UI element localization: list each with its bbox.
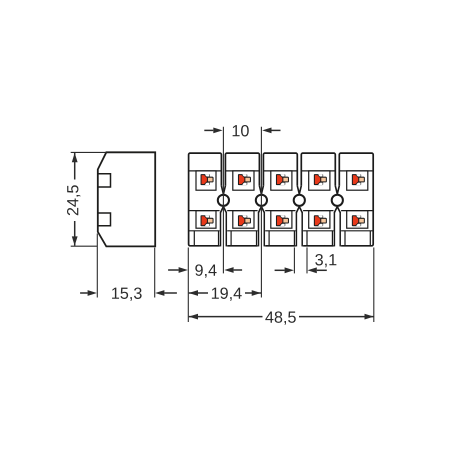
extension line pitch right bbox=[260, 127, 262, 298]
junction 3 pinch and circle bbox=[294, 186, 305, 247]
extension line strip left bbox=[187, 248, 189, 323]
clamp icon 4 upper bbox=[314, 174, 327, 185]
module 4 body bbox=[301, 153, 335, 246]
dimension 24,5 bbox=[67, 152, 106, 246]
module 5 body bbox=[339, 153, 373, 246]
module 2 body bbox=[225, 153, 259, 246]
clamp icon 1 lower bbox=[201, 215, 214, 226]
clamp icon 1 upper bbox=[201, 174, 214, 185]
side view notch lower bbox=[98, 213, 111, 226]
clamp icon 5 upper bbox=[352, 174, 365, 185]
side view outline bbox=[98, 152, 155, 246]
module 1 body bbox=[189, 153, 222, 246]
extension line slot left bbox=[293, 247, 295, 273]
extension line pitch left bbox=[222, 127, 224, 274]
clamp icon 5 lower bbox=[352, 215, 365, 226]
dimension 15,3 bbox=[80, 234, 177, 301]
junction 4 pinch and circle bbox=[332, 186, 343, 247]
clamp icon 3 lower bbox=[276, 215, 289, 226]
clamp icon 2 lower bbox=[238, 215, 251, 226]
dimension 19,4 bbox=[189, 287, 261, 300]
dimension 3,1 bbox=[275, 254, 337, 273]
clamp icon 2 upper bbox=[238, 174, 251, 185]
junction 2 pinch and circle bbox=[256, 186, 267, 247]
side view notch upper bbox=[98, 174, 111, 187]
junction 1 pinch and circle bbox=[218, 186, 229, 247]
extension line strip right bbox=[373, 248, 375, 323]
clamp icon 4 lower bbox=[314, 215, 327, 226]
module 3 body bbox=[263, 153, 297, 246]
dimension 10 bbox=[204, 125, 280, 136]
clamp icon 3 upper bbox=[276, 174, 289, 185]
dimension 9,4 bbox=[168, 264, 242, 277]
extension line slot right bbox=[306, 247, 308, 273]
dimension 48,5 bbox=[189, 311, 374, 324]
